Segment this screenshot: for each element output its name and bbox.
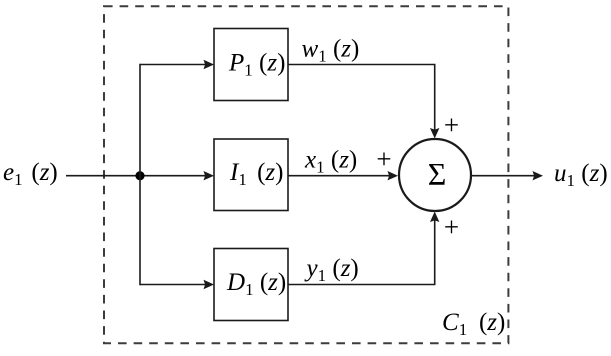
- svg-text:e1 (z): e1 (z): [3, 159, 58, 189]
- wire vertical branch at junction: [139, 64, 141, 286]
- arrowhead into summer bottom: [430, 212, 439, 223]
- svg-text:+: +: [444, 212, 459, 242]
- dashed controller boundary box C1: [104, 6, 508, 343]
- block I1(z): [214, 139, 288, 211]
- svg-text:+: +: [376, 144, 391, 174]
- arrowhead output: [533, 171, 544, 180]
- wire branch to P1: [140, 64, 207, 66]
- arrowhead into P1 block: [204, 60, 215, 69]
- svg-text:u1 (z): u1 (z): [554, 160, 608, 190]
- svg-text:I1 (z): I1 (z): [229, 159, 283, 189]
- svg-text:Σ: Σ: [428, 156, 447, 192]
- wire P1 output to summer (down): [288, 65, 435, 133]
- arrowhead into I1 block: [204, 171, 215, 180]
- svg-text:w1 (z): w1 (z): [302, 36, 360, 66]
- summing junction U1: [399, 139, 471, 211]
- wire input e1 horizontal: [66, 175, 207, 177]
- arrowhead into summer top: [430, 128, 439, 139]
- wire branch to D1: [140, 284, 207, 286]
- wire D1 output to summer (up): [288, 218, 435, 285]
- svg-text:C1 (z): C1 (z): [442, 309, 505, 339]
- node junction dot: [135, 171, 144, 180]
- wire I1 output to summer (left): [288, 175, 391, 177]
- wire summer output u1: [472, 175, 537, 177]
- block P1(z): [214, 29, 288, 101]
- arrowhead into summer left: [388, 171, 399, 180]
- svg-text:+: +: [444, 110, 459, 140]
- svg-text:y1 (z): y1 (z): [304, 255, 359, 285]
- svg-text:x1 (z): x1 (z): [304, 147, 357, 177]
- svg-text:P1 (z): P1 (z): [228, 50, 285, 80]
- svg-text:D1 (z): D1 (z): [226, 269, 286, 299]
- arrowhead into D1 block: [204, 280, 215, 289]
- block D1(z): [214, 249, 288, 321]
